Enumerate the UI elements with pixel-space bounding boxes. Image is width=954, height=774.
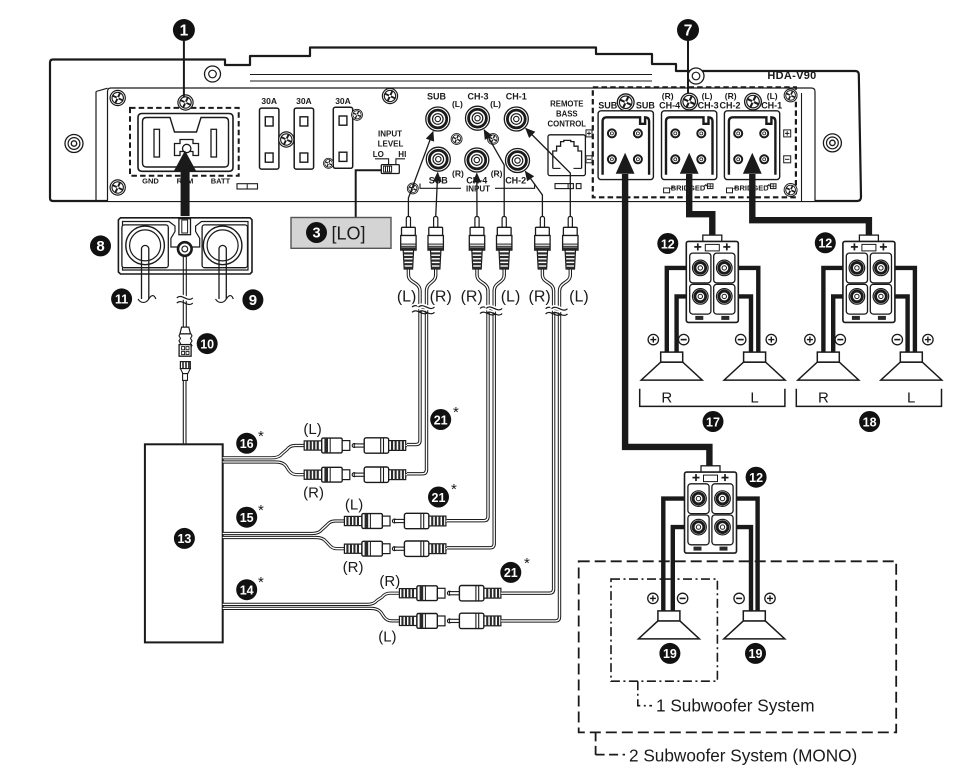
svg-text:(L): (L) bbox=[490, 99, 501, 109]
BRIDGED label right bbox=[727, 183, 777, 193]
small connector on panel bbox=[237, 184, 258, 189]
svg-text:GND: GND bbox=[142, 177, 159, 186]
svg-text:(R): (R) bbox=[528, 289, 550, 306]
screw fuse3 bottom-left bbox=[323, 158, 333, 168]
cable CH-1 bbox=[503, 270, 570, 621]
label 7 circled bbox=[677, 19, 699, 41]
cable SUB R bbox=[407, 270, 436, 474]
svg-text:REMOTE: REMOTE bbox=[550, 100, 583, 109]
svg-text:(L): (L) bbox=[452, 99, 463, 109]
svg-text:[LO]: [LO] bbox=[332, 224, 366, 244]
RCA plug (R) bbox=[535, 217, 550, 270]
system unit box 13 bbox=[145, 444, 223, 642]
label 15 circled bbox=[236, 507, 257, 528]
terminal block SUB SUB bbox=[598, 111, 653, 180]
black arrow into REM terminal bbox=[174, 151, 196, 217]
svg-text:3: 3 bbox=[312, 226, 320, 242]
label 21 circled (pair 15) bbox=[428, 487, 449, 508]
svg-text:(R): (R) bbox=[725, 91, 737, 101]
svg-text:18: 18 bbox=[863, 415, 877, 429]
screw dashed-box bottom-right bbox=[784, 184, 797, 197]
cable CH-3 bbox=[447, 270, 504, 548]
chassis standoff left bbox=[65, 135, 83, 153]
leader arrow plug1 to jack bbox=[408, 132, 433, 217]
screw above CH-2/CH-1 terminal bbox=[745, 93, 762, 110]
svg-text:(L): (L) bbox=[569, 289, 589, 306]
svg-text:12: 12 bbox=[661, 237, 675, 251]
svg-text:(L): (L) bbox=[767, 91, 778, 101]
leader line from label 1 bbox=[183, 41, 185, 97]
cable pair 16 from box bbox=[223, 446, 305, 458]
svg-text:30A: 30A bbox=[261, 96, 277, 106]
inline fuse holder 10 bbox=[179, 327, 192, 380]
label 9 circled bbox=[242, 289, 263, 310]
RCA input jack CH-2 bbox=[506, 149, 530, 173]
polarity marks 18 bbox=[805, 334, 815, 344]
RCA input jack SUB (L) bbox=[426, 107, 450, 131]
cable break bbox=[486, 307, 502, 315]
svg-text:L: L bbox=[750, 390, 758, 407]
cable break bbox=[480, 307, 496, 315]
svg-text:*: * bbox=[258, 502, 264, 519]
speaker wire CH2/CH1 run bbox=[752, 174, 869, 240]
svg-text:(L): (L) bbox=[345, 497, 363, 514]
label 12 circled bbox=[657, 233, 678, 254]
battery wire 9 (from right ring) bbox=[216, 245, 234, 302]
svg-text:CH-2: CH-2 bbox=[719, 100, 740, 110]
svg-text:(R): (R) bbox=[452, 169, 464, 179]
svg-text:R: R bbox=[661, 390, 672, 407]
chassis standoff right bbox=[823, 134, 841, 152]
terminal block CH-2 CH-1 bbox=[724, 111, 779, 180]
svg-text:1 Subwoofer System: 1 Subwoofer System bbox=[656, 696, 815, 716]
svg-text:*: * bbox=[524, 555, 530, 572]
wires block1 to speakers (17) bbox=[667, 268, 759, 353]
coupler 14 row L bbox=[399, 613, 501, 628]
polarity marks 17 bbox=[648, 334, 658, 344]
power connector block 8 bbox=[118, 218, 252, 274]
svg-text:10: 10 bbox=[200, 337, 214, 351]
svg-text:L: L bbox=[907, 390, 915, 407]
recessed front panel bbox=[108, 88, 816, 201]
svg-text:14: 14 bbox=[240, 584, 254, 598]
svg-text:16: 16 bbox=[240, 437, 254, 451]
arrow into SUB terminal bbox=[616, 153, 635, 174]
arrow into CH2/CH1 terminal bbox=[743, 153, 762, 174]
svg-text:BATT: BATT bbox=[211, 177, 231, 186]
BRIDGED label left bbox=[664, 183, 713, 193]
svg-text:(R): (R) bbox=[379, 573, 400, 590]
svg-text:19: 19 bbox=[663, 647, 677, 661]
leader arrow plug3 to jack bbox=[476, 174, 478, 218]
svg-text:INPUT: INPUT bbox=[378, 130, 402, 139]
subwoofer speaker A bbox=[638, 611, 699, 639]
leader line from label 7 bbox=[687, 41, 689, 97]
small rect below remote jack bbox=[555, 184, 581, 189]
outer dashed box 2 subwoofer system bbox=[579, 561, 897, 732]
remote bass control jack bbox=[548, 135, 585, 176]
screw left of INPUT bracket bbox=[407, 183, 418, 194]
setting callout box [LO] bbox=[291, 218, 391, 249]
screw fuse3 top-right bbox=[352, 109, 363, 120]
speaker L (18) bbox=[881, 352, 942, 380]
label 14 circled bbox=[236, 579, 257, 600]
leader from switch to setting box bbox=[356, 170, 382, 217]
chassis standoff top-right bbox=[688, 68, 704, 84]
svg-text:7: 7 bbox=[684, 23, 693, 40]
svg-text:12: 12 bbox=[818, 237, 832, 251]
svg-text:LO: LO bbox=[373, 150, 384, 159]
chassis screw top-middle bbox=[382, 88, 397, 103]
svg-text:17: 17 bbox=[706, 415, 720, 429]
svg-text:CH-1: CH-1 bbox=[506, 92, 527, 102]
connector block 12 (subwoofer) bbox=[685, 466, 737, 553]
svg-text:SUB: SUB bbox=[598, 100, 618, 110]
svg-text:*: * bbox=[258, 428, 264, 445]
inner dash-dot box 1 subwoofer system bbox=[611, 579, 717, 681]
cable break bbox=[412, 306, 428, 314]
cable pair 15 from box bbox=[223, 521, 345, 534]
label 12 circled bbox=[815, 232, 836, 253]
cable break bbox=[546, 307, 562, 315]
svg-text:*: * bbox=[258, 574, 264, 591]
svg-text:(R): (R) bbox=[343, 559, 364, 576]
svg-text:INPUT: INPUT bbox=[466, 184, 490, 193]
speaker terminal labels row bbox=[598, 91, 782, 111]
label 19 circled B bbox=[745, 643, 766, 664]
chassis standoff top bbox=[205, 66, 221, 82]
speaker L (17) bbox=[724, 352, 785, 380]
svg-text:(R): (R) bbox=[461, 289, 483, 306]
label 11 circled bbox=[111, 288, 132, 309]
label 19 circled A bbox=[659, 643, 680, 664]
speaker R (17) bbox=[641, 352, 702, 380]
level switch bbox=[375, 159, 405, 174]
cable CH-2 bbox=[503, 270, 554, 594]
svg-text:SUB: SUB bbox=[427, 92, 447, 102]
boxed minus right edge bbox=[784, 156, 791, 163]
svg-text:*: * bbox=[451, 481, 457, 498]
svg-text:HDA-V90: HDA-V90 bbox=[767, 70, 816, 82]
bracket 18 bbox=[796, 389, 941, 407]
svg-text:2 Subwoofer System (MONO): 2 Subwoofer System (MONO) bbox=[629, 746, 857, 766]
leader 2 subwoofer system bbox=[595, 732, 597, 755]
cable SUB L bbox=[407, 270, 420, 445]
label 8 circled bbox=[90, 235, 111, 256]
fuse 30A #3 bbox=[333, 107, 352, 168]
power terminal block bbox=[138, 114, 233, 172]
amplifier HDA-V90 rear chassis bbox=[50, 48, 861, 202]
svg-text:(R): (R) bbox=[303, 485, 324, 502]
svg-text:12: 12 bbox=[749, 471, 763, 485]
svg-text:30A: 30A bbox=[335, 96, 351, 106]
remote wire to system unit bbox=[183, 380, 186, 443]
boxed minus left edge bbox=[586, 156, 592, 163]
svg-text:(L): (L) bbox=[397, 289, 417, 306]
RCA input jack CH-3 (L) bbox=[466, 106, 490, 130]
cable pair 14 from box bbox=[223, 593, 400, 604]
heatsink lid face lines bbox=[250, 74, 652, 76]
screw above SUB terminal bbox=[617, 94, 634, 111]
svg-text:CH-1: CH-1 bbox=[761, 100, 782, 110]
svg-text:(R): (R) bbox=[491, 169, 503, 179]
svg-text:15: 15 bbox=[240, 511, 254, 525]
svg-text:21: 21 bbox=[504, 566, 518, 580]
fuse 30A #1 bbox=[260, 108, 279, 169]
svg-text:*: * bbox=[453, 404, 459, 421]
label 12 circled bbox=[746, 467, 767, 488]
chassis screw top-left bbox=[110, 90, 125, 105]
label 17 circled bbox=[703, 411, 724, 432]
RCA input jack SUB (R) bbox=[426, 147, 450, 171]
INPUT bracket bbox=[420, 184, 535, 189]
svg-text:CH-3: CH-3 bbox=[698, 100, 719, 110]
svg-text:9: 9 bbox=[249, 292, 257, 309]
coupler 16 row R bbox=[304, 467, 406, 482]
arrow into CH4/CH3 terminal bbox=[680, 153, 699, 174]
svg-text:HI: HI bbox=[398, 150, 406, 159]
coupler 15 row R bbox=[344, 541, 446, 556]
connector block 12 (rear pair) bbox=[843, 235, 895, 322]
svg-text:CH-2: CH-2 bbox=[505, 176, 526, 186]
bracket 17 bbox=[640, 389, 785, 407]
boxed plus left edge bbox=[586, 130, 592, 137]
svg-text:CONTROL: CONTROL bbox=[548, 120, 587, 129]
svg-text:R: R bbox=[818, 390, 829, 407]
screw dashed-box top-right bbox=[784, 89, 797, 102]
RCA plug (L) bbox=[401, 217, 416, 270]
subwoofer speaker B bbox=[724, 611, 785, 639]
svg-text:19: 19 bbox=[749, 647, 763, 661]
label 13 circled bbox=[174, 528, 195, 549]
RCA input jack CH-1 bbox=[504, 107, 528, 131]
RCA plug (R) bbox=[469, 217, 484, 270]
screw above power terminal bbox=[178, 95, 193, 110]
svg-text:CH-3: CH-3 bbox=[467, 92, 488, 102]
label 18 circled bbox=[859, 411, 880, 432]
coupler 15 row L bbox=[344, 513, 446, 528]
RCA plug (R) bbox=[428, 217, 443, 270]
svg-text:CH-4: CH-4 bbox=[659, 100, 680, 110]
chassis screw bottom-left bbox=[110, 180, 125, 195]
speaker terminal dashed outline bbox=[593, 87, 796, 197]
polarity marks subwoofers bbox=[648, 593, 658, 603]
wires sub block to subwoofers bbox=[663, 499, 757, 612]
speaker wire SUB run (thick) bbox=[625, 174, 709, 469]
svg-text:13: 13 bbox=[177, 532, 191, 546]
svg-text:(R): (R) bbox=[662, 91, 674, 101]
svg-text:(L): (L) bbox=[501, 289, 521, 306]
svg-text:(R): (R) bbox=[430, 289, 452, 306]
cable break bbox=[552, 307, 568, 315]
wires block2 to speakers (18) bbox=[823, 268, 915, 353]
svg-text:1: 1 bbox=[180, 23, 189, 40]
remote wire (center, thin) bbox=[177, 255, 193, 327]
fuse 30A #2 bbox=[294, 108, 313, 169]
svg-text:21: 21 bbox=[432, 491, 446, 505]
svg-text:(L): (L) bbox=[702, 91, 713, 101]
svg-text:30A: 30A bbox=[296, 96, 312, 106]
cable CH-4 bbox=[447, 270, 488, 521]
screw above CH-4/CH-3 terminal bbox=[681, 93, 698, 110]
label 1 circled bbox=[173, 19, 195, 41]
RCA plug (L) bbox=[497, 217, 512, 270]
label 16 circled bbox=[236, 433, 257, 454]
svg-text:(L): (L) bbox=[378, 629, 396, 646]
input jack labels bbox=[427, 92, 527, 186]
speaker R (18) bbox=[798, 352, 859, 380]
leader 1 subwoofer system bbox=[638, 681, 652, 706]
terminal block CH-4 CH-3 bbox=[662, 111, 717, 180]
svg-text:BASS: BASS bbox=[556, 110, 578, 119]
svg-text:11: 11 bbox=[115, 293, 128, 307]
RCA plug (L) bbox=[563, 217, 578, 270]
leader arrow plug2 to jack bbox=[436, 173, 438, 217]
svg-text:LEVEL: LEVEL bbox=[378, 140, 404, 149]
connector block 12 (front pair) bbox=[686, 235, 738, 322]
RCA input jack CH-4 (R) bbox=[465, 148, 489, 172]
coupler 14 row R bbox=[399, 586, 501, 601]
svg-text:(L): (L) bbox=[303, 421, 321, 438]
power terminal dashed outline bbox=[130, 108, 239, 176]
coupler 16 row L bbox=[304, 438, 406, 453]
REMOTE BASS CONTROL labels bbox=[548, 100, 587, 129]
svg-text:8: 8 bbox=[96, 238, 104, 255]
label 21 circled (pair 16) bbox=[430, 409, 451, 430]
leader arrow plug4 to jack bbox=[484, 130, 504, 217]
svg-text:SUB: SUB bbox=[636, 100, 656, 110]
leader arrow plug6 to jack bbox=[526, 129, 571, 218]
cable break bbox=[419, 306, 435, 314]
screw between fuses bbox=[279, 132, 294, 147]
leader arrow plug5 to jack bbox=[525, 171, 542, 217]
svg-text:21: 21 bbox=[434, 413, 448, 427]
screws between input jacks bbox=[451, 134, 462, 145]
ground wire 11 (from left ring) bbox=[138, 245, 156, 302]
label 21 circled (pair 14) bbox=[500, 562, 521, 583]
boxed plus right edge bbox=[784, 130, 791, 137]
speaker wire CH4/CH3 run bbox=[689, 174, 712, 240]
label 10 circled bbox=[197, 333, 218, 354]
